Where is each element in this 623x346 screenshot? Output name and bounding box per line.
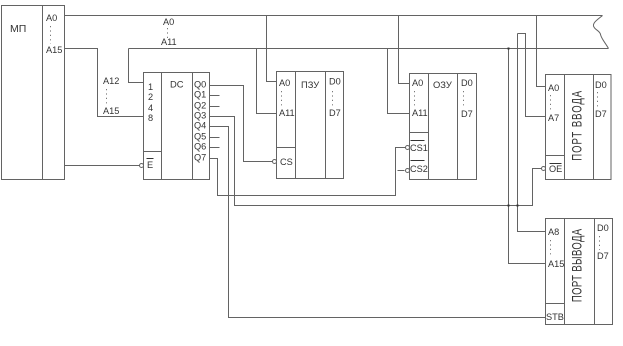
svg-text:Q6: Q6 [194,142,206,152]
svg-text:A15: A15 [548,259,564,269]
svg-text:E: E [147,160,153,170]
svg-text:A15: A15 [103,106,119,116]
svg-text:A11: A11 [279,108,295,118]
svg-text:D7: D7 [597,251,609,261]
svg-text:OE: OE [549,164,562,174]
svg-text:D0: D0 [595,80,607,90]
svg-text:A8: A8 [548,227,559,237]
svg-text:ПОРТ ВВОДА: ПОРТ ВВОДА [569,90,585,161]
svg-text:Q0: Q0 [194,80,206,90]
svg-text:Q5: Q5 [194,132,206,142]
svg-text:МП: МП [10,23,26,35]
svg-text:Q2: Q2 [194,101,206,111]
svg-text:ПЗУ: ПЗУ [301,79,319,90]
svg-text:D7: D7 [461,109,473,119]
svg-text:Q1: Q1 [194,90,206,100]
svg-text:A0: A0 [46,13,57,23]
svg-text:Q4: Q4 [194,121,206,131]
svg-text:CS1: CS1 [410,143,428,153]
svg-text:CS2: CS2 [410,164,428,174]
svg-text:CS: CS [280,157,293,167]
svg-text:ОЗУ: ОЗУ [433,79,452,90]
svg-text:4: 4 [148,103,153,113]
svg-text:D7: D7 [329,108,341,118]
svg-text:A12: A12 [103,76,119,86]
svg-text:D0: D0 [329,77,341,87]
svg-text:Q7: Q7 [194,153,206,163]
svg-text:2: 2 [148,92,153,102]
svg-text:A11: A11 [412,108,428,118]
svg-text:STB: STB [546,312,564,322]
svg-text:8: 8 [148,113,153,123]
svg-text:A0: A0 [163,17,174,27]
svg-text:A0: A0 [548,83,559,93]
svg-text:D0: D0 [597,223,609,233]
svg-text:D7: D7 [595,109,607,119]
svg-text:ПОРТ ВЫВОДА: ПОРТ ВЫВОДА [569,228,585,302]
svg-text:DC: DC [170,79,184,90]
svg-text:A0: A0 [279,78,290,88]
svg-text:Q3: Q3 [194,111,206,121]
svg-text:D0: D0 [461,78,473,88]
svg-text:1: 1 [148,82,153,92]
svg-text:A15: A15 [46,45,62,55]
svg-text:A11: A11 [161,37,177,47]
svg-text:A7: A7 [548,113,559,123]
svg-text:A0: A0 [412,78,423,88]
